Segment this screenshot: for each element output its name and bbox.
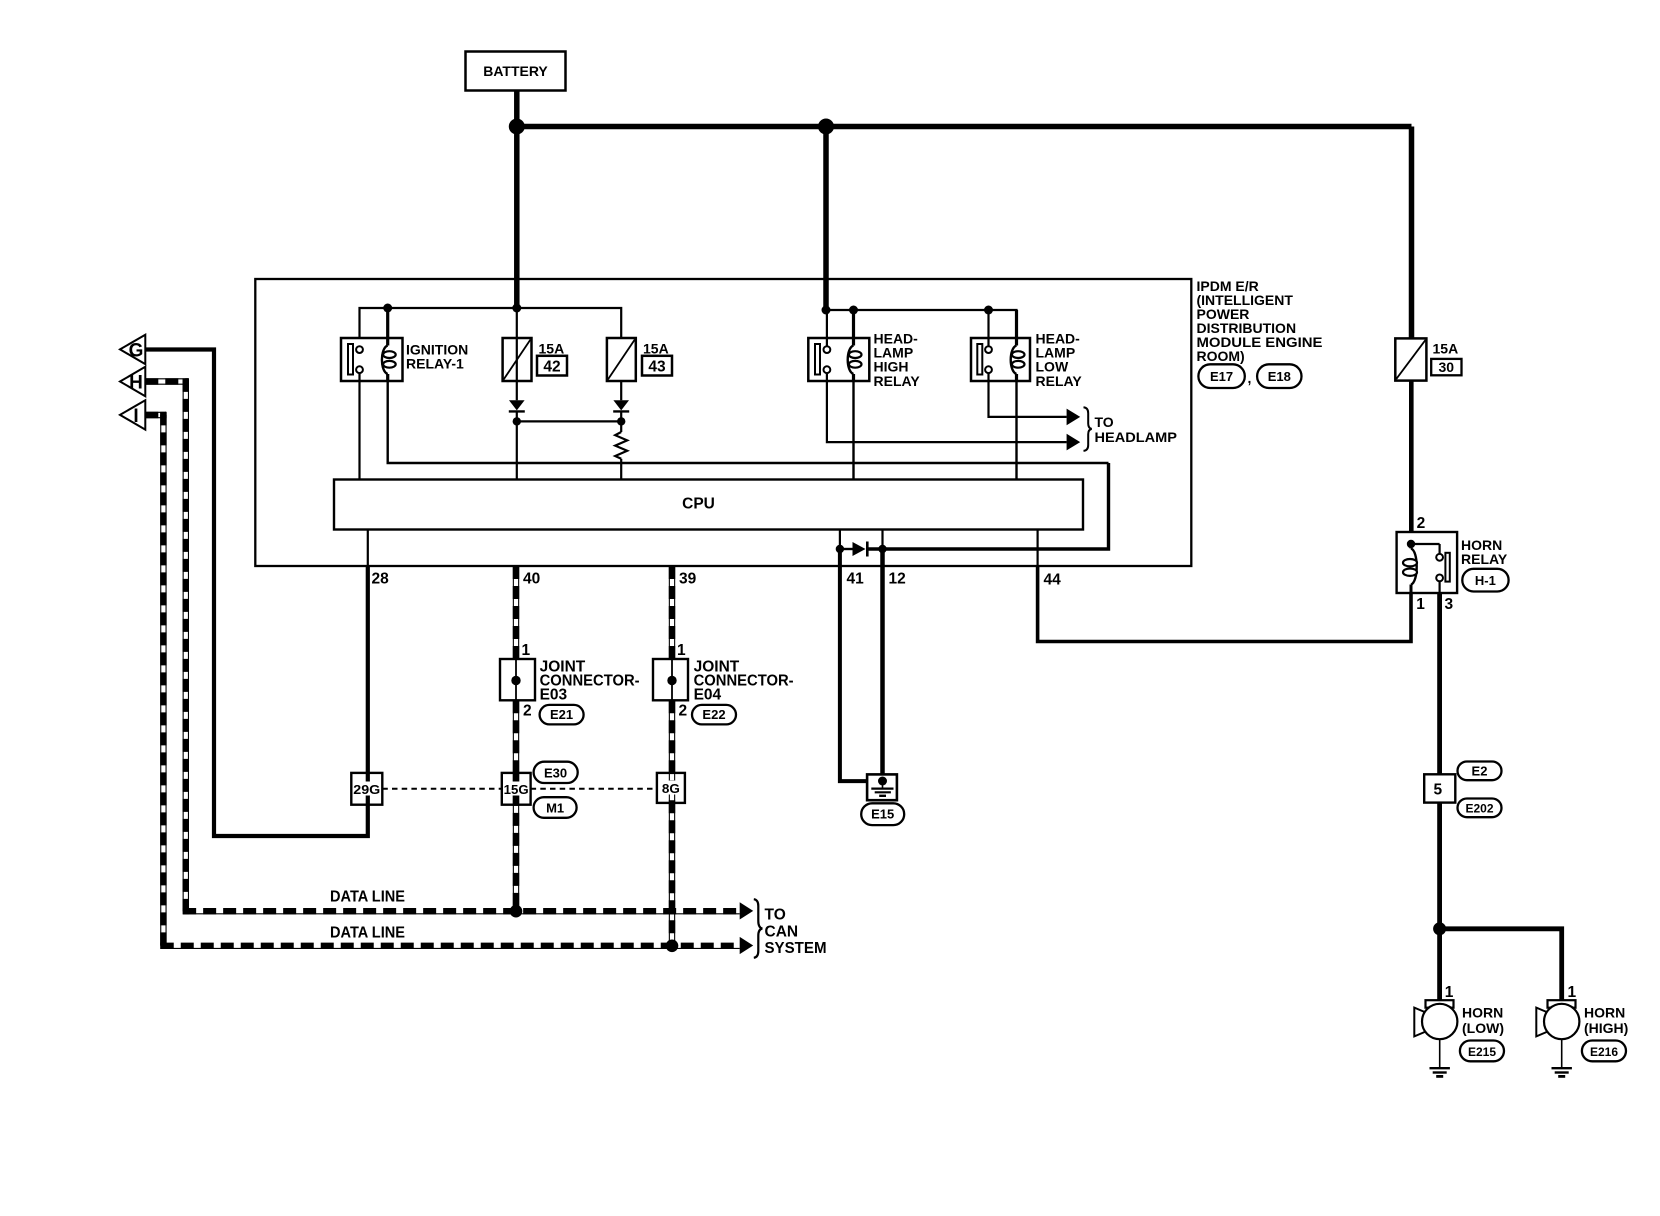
- label 8G: [661, 781, 680, 796]
- wire ground link dashed left: [382, 788, 502, 790]
- node data line 2 junction: [666, 940, 679, 953]
- svg-text:15G: 15G: [504, 782, 529, 797]
- wire high relay coil to CPU: [852, 381, 854, 480]
- wire ignition contact to CPU: [358, 373, 360, 479]
- svg-text:5: 5: [1433, 781, 1442, 798]
- wire resistor to CPU: [620, 459, 622, 480]
- fuse F30: [1395, 338, 1461, 380]
- connector label E215: [1460, 1041, 1504, 1062]
- svg-text:2: 2: [1417, 515, 1426, 532]
- diode D1: [509, 400, 525, 411]
- node junction battery bus: [509, 119, 525, 135]
- node junction bus headlamp branch: [818, 119, 834, 135]
- ground box 29G: [351, 773, 382, 805]
- wire pin 12 to ground: [880, 549, 885, 777]
- wire bus to fuse 30: [1409, 127, 1415, 339]
- wire CPU pin12 lead: [881, 530, 883, 550]
- wire battery to bus: [514, 91, 520, 127]
- diode D2: [613, 400, 629, 411]
- wire cross-connect diodes: [517, 420, 621, 422]
- svg-text:15A: 15A: [1433, 341, 1459, 357]
- svg-text:H-1: H-1: [1475, 573, 1496, 588]
- svg-text:42: 42: [543, 359, 560, 376]
- svg-text:E30: E30: [544, 765, 567, 780]
- wire branch to horn high: [1440, 929, 1562, 1000]
- connector label H-1: [1462, 569, 1508, 592]
- svg-text:E2: E2: [1472, 763, 1488, 778]
- svg-text:3: 3: [1445, 596, 1454, 613]
- svg-text:ROOM): ROOM): [1197, 348, 1245, 364]
- svg-text:E18: E18: [1268, 369, 1291, 384]
- svg-text:28: 28: [372, 571, 390, 588]
- wire pin 28 to terminal G: [145, 350, 367, 837]
- connector label E202: [1458, 799, 1502, 818]
- svg-text:15A: 15A: [643, 341, 669, 357]
- ground horn low: [1430, 1039, 1450, 1076]
- wire pin 44 to horn relay coil: [1038, 566, 1411, 642]
- node diode D3 cathode: [878, 545, 886, 553]
- wire diode D1 to CPU: [516, 411, 518, 479]
- terminal H: [120, 367, 145, 396]
- svg-text:30: 30: [1439, 359, 1455, 375]
- joint connector E04: [653, 659, 688, 700]
- connector label E18: [1257, 364, 1301, 388]
- arrow to headlamp upper: [1067, 409, 1081, 426]
- wire diode rail to ignition coil: [867, 463, 1108, 549]
- connector label E216: [1582, 1041, 1626, 1062]
- terminal I: [120, 400, 145, 429]
- svg-text:E202: E202: [1465, 801, 1493, 815]
- svg-text:E04: E04: [694, 687, 722, 704]
- fuse F43: [607, 338, 672, 381]
- ground box 15G: [502, 773, 531, 805]
- node data line 1 junction: [510, 905, 523, 918]
- svg-text:TO: TO: [1095, 414, 1114, 430]
- svg-text:HORN: HORN: [1584, 1004, 1625, 1020]
- wire fuse30 to horn relay: [1409, 381, 1414, 533]
- svg-text:43: 43: [648, 359, 666, 376]
- svg-text:39: 39: [679, 571, 697, 588]
- label TO HEADLAMP: [1095, 414, 1178, 445]
- connector label M1: [534, 797, 577, 818]
- arrow data line 1: [740, 902, 754, 919]
- svg-text:CPU: CPU: [682, 496, 715, 513]
- svg-text:E215: E215: [1468, 1045, 1496, 1059]
- connector label E22: [692, 705, 736, 725]
- ground E15: [867, 774, 897, 800]
- wire horn relay pin3 to connector 5: [1437, 593, 1442, 774]
- label horn high: [1584, 1004, 1628, 1036]
- wire pin 40 checkered through 15G to data line: [513, 773, 518, 911]
- node diode D2 out: [617, 417, 625, 425]
- wire top bus: [517, 124, 1412, 130]
- wire pin 40 checkered upper: [513, 566, 518, 659]
- fuse F42: [503, 338, 567, 381]
- label joint connector E04: [694, 659, 794, 704]
- wire pin 41 to ground: [840, 549, 879, 781]
- wire fuse42 to diode: [516, 308, 518, 400]
- relay K4 horn relay: [1397, 532, 1458, 593]
- svg-text:44: 44: [1044, 572, 1062, 589]
- label horn relay: [1461, 537, 1508, 567]
- svg-text:BATTERY: BATTERY: [483, 63, 548, 79]
- label TO CAN SYSTEM: [765, 907, 827, 957]
- svg-text:TO: TO: [765, 907, 786, 924]
- svg-text:1: 1: [522, 642, 531, 659]
- label 15G: [503, 782, 529, 797]
- IPDM E/R box: [255, 279, 1191, 566]
- svg-text:1: 1: [1445, 984, 1454, 1001]
- CPU U1: [334, 480, 1083, 530]
- relay K1 ignition relay-1: [341, 308, 468, 381]
- wire headlamp branch into IPDM: [823, 127, 829, 311]
- svg-text:(LOW): (LOW): [1462, 1020, 1504, 1036]
- connector label E15: [861, 803, 904, 825]
- svg-text:2: 2: [679, 703, 688, 720]
- connector label E17: [1198, 364, 1244, 388]
- wire pin 40 checkered lower: [513, 700, 518, 773]
- wire connector 5 to horns: [1437, 803, 1442, 1001]
- svg-text:,: ,: [1248, 370, 1252, 386]
- svg-text:RELAY: RELAY: [1461, 551, 1508, 567]
- svg-text:E21: E21: [550, 707, 573, 722]
- svg-text:1: 1: [1568, 984, 1577, 1001]
- wire terminal I checkered: [145, 412, 166, 949]
- arrow data line 2: [740, 937, 754, 954]
- node horn branch: [1433, 922, 1446, 935]
- node rail low relay contact: [984, 306, 993, 315]
- wire ignition coil to diode rail: [388, 381, 1109, 463]
- node rail high relay contact: [822, 306, 831, 315]
- wire data line 2 checkered: [161, 946, 740, 949]
- battery B1: [466, 52, 566, 91]
- svg-text:DATA LINE: DATA LINE: [330, 925, 405, 942]
- wire data line 1 checkered: [183, 911, 740, 914]
- svg-text:(HIGH): (HIGH): [1584, 1020, 1628, 1036]
- label joint connector E03: [540, 659, 640, 704]
- svg-text:29G: 29G: [353, 782, 380, 797]
- svg-text:RELAY: RELAY: [874, 373, 921, 389]
- svg-text:40: 40: [523, 571, 540, 588]
- wire CPU pin28 lead: [367, 530, 369, 567]
- svg-text:RELAY: RELAY: [1036, 373, 1083, 389]
- brace to CAN: [754, 899, 763, 958]
- node rail ignition coil: [383, 304, 392, 313]
- svg-text:1: 1: [677, 642, 686, 659]
- resistor R1: [615, 432, 627, 459]
- svg-text:M1: M1: [546, 801, 564, 816]
- wire internal feed rail left: [360, 308, 622, 346]
- wire CPU pin44 lead: [1036, 530, 1038, 567]
- svg-text:12: 12: [889, 571, 906, 588]
- horn low: [1414, 1000, 1457, 1039]
- wire high relay contact to headlamp arrow: [827, 373, 1067, 442]
- relay K2 headlamp high relay: [808, 310, 920, 389]
- wire diode D2 to resistor: [620, 411, 622, 432]
- ground horn high: [1552, 1039, 1572, 1076]
- svg-text:DATA LINE: DATA LINE: [330, 889, 405, 906]
- terminal G: [120, 335, 145, 364]
- horn high: [1536, 1000, 1579, 1039]
- svg-text:E22: E22: [702, 707, 725, 722]
- wire battery branch into IPDM: [514, 127, 520, 309]
- node rail high relay coil: [849, 306, 858, 315]
- arrow to headlamp lower: [1067, 434, 1081, 451]
- svg-text:15A: 15A: [539, 341, 565, 357]
- connector 5: [1424, 774, 1455, 802]
- wire CPU pin41 lead: [839, 530, 841, 550]
- diode D3: [840, 542, 867, 557]
- joint connector E03: [500, 659, 535, 700]
- label horn low: [1462, 1004, 1504, 1036]
- svg-text:HEADLAMP: HEADLAMP: [1095, 429, 1178, 445]
- wire 29G pass-through: [366, 774, 370, 804]
- connector label E21: [540, 705, 584, 725]
- connector label E30: [534, 762, 578, 783]
- label 29G: [353, 782, 382, 797]
- connector label E2: [1458, 762, 1502, 781]
- node rail battery feed: [512, 304, 521, 313]
- wire internal feed rail right: [826, 310, 1017, 345]
- wire pin 39 checkered through 8G to data line: [669, 700, 674, 946]
- svg-text:41: 41: [847, 571, 865, 588]
- svg-text:E216: E216: [1590, 1045, 1618, 1059]
- svg-text:CAN: CAN: [765, 923, 799, 940]
- ground box 8G: [657, 773, 685, 803]
- svg-text:E03: E03: [540, 687, 568, 704]
- svg-text:SYSTEM: SYSTEM: [765, 940, 827, 957]
- svg-text:I: I: [133, 406, 138, 427]
- wire fuse43 to diode: [620, 381, 622, 400]
- svg-text:E15: E15: [871, 807, 894, 822]
- svg-text:G: G: [129, 341, 144, 362]
- svg-text:RELAY-1: RELAY-1: [406, 356, 464, 372]
- svg-text:2: 2: [523, 703, 532, 720]
- label IPDM E/R: [1197, 278, 1323, 364]
- wire terminal H checkered: [145, 378, 189, 914]
- relay K3 headlamp low relay: [971, 310, 1082, 389]
- node diode D1 out: [513, 417, 521, 425]
- brace to headlamp: [1084, 407, 1092, 451]
- wire low relay contact to headlamp arrow: [989, 373, 1067, 417]
- svg-text:8G: 8G: [662, 781, 680, 796]
- svg-text:1: 1: [1416, 596, 1425, 613]
- wire ground link dashed right: [531, 788, 657, 790]
- node diode D3 anode: [836, 545, 844, 553]
- wire low relay coil to CPU: [1015, 381, 1017, 480]
- svg-text:E17: E17: [1210, 369, 1233, 384]
- wire pin 39 checkered upper: [669, 566, 674, 659]
- svg-text:H: H: [129, 373, 143, 394]
- svg-text:HORN: HORN: [1462, 1004, 1503, 1020]
